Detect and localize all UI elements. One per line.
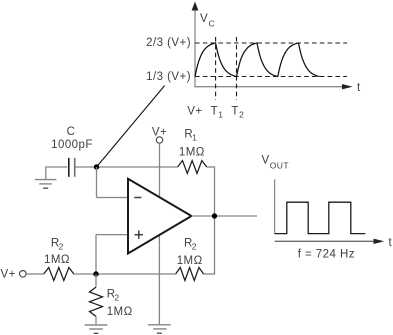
svg-text:1MΩ: 1MΩ [107, 306, 133, 318]
svg-text:V: V [200, 13, 208, 25]
svg-text:V: V [262, 155, 270, 167]
svg-text:T: T [231, 106, 238, 118]
svg-text:T: T [211, 106, 218, 118]
svg-text:2/3 (V+): 2/3 (V+) [146, 37, 191, 49]
svg-text:1: 1 [192, 133, 197, 143]
svg-text:2: 2 [239, 110, 244, 120]
svg-text:C: C [209, 18, 216, 28]
svg-text:t: t [357, 82, 361, 94]
svg-text:OUT: OUT [270, 160, 289, 170]
svg-text:V+: V+ [187, 106, 202, 118]
svg-text:f = 724 Hz: f = 724 Hz [298, 249, 355, 261]
svg-text:1: 1 [218, 110, 223, 120]
svg-text:1000pF: 1000pF [51, 139, 93, 151]
svg-text:1MΩ: 1MΩ [179, 146, 205, 158]
svg-text:t: t [389, 237, 393, 249]
svg-text:2: 2 [192, 242, 197, 252]
svg-text:V+: V+ [1, 269, 16, 281]
svg-text:2: 2 [59, 242, 64, 252]
svg-text:1MΩ: 1MΩ [177, 255, 203, 267]
svg-text:1/3 (V+): 1/3 (V+) [146, 71, 191, 83]
svg-text:2: 2 [114, 293, 119, 303]
svg-text:C: C [67, 126, 76, 138]
svg-text:1MΩ: 1MΩ [44, 254, 70, 266]
